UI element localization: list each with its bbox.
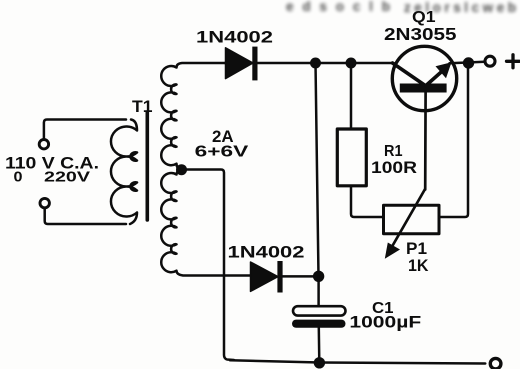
- wire: P1 right to emitter rail: [439, 63, 468, 217]
- resistor R1 body: [337, 129, 366, 186]
- node: C1 top junction: [313, 271, 324, 282]
- capacitor C1 lead top: [317, 276, 320, 306]
- capacitor C1 top plate (outline): [293, 306, 346, 315]
- output terminal +: [485, 56, 495, 66]
- svg-text:1K: 1K: [408, 256, 429, 275]
- transistor Q1 base lead down to wiper: [424, 93, 427, 190]
- diode D1 1N4002 (top) wire from secondary: [225, 62, 252, 65]
- wire: emitter junction to + terminal: [450, 62, 485, 64]
- potentiometer P1 wiper arrow: [392, 190, 425, 248]
- primary terminal top (110V): [39, 140, 48, 149]
- svg-text:edsoclb: edsoclb: [286, 0, 390, 14]
- transistor Q1 circle: [392, 46, 456, 110]
- svg-text:220V: 220V: [44, 170, 90, 186]
- transformer T1 secondary winding: [161, 63, 250, 276]
- capacitor C1 bottom plate (solid): [292, 320, 346, 328]
- wire: left vertical rail to C1 junction: [316, 63, 319, 276]
- transistor Q1 emitter line with arrow: [426, 70, 444, 86]
- diode D1 1N4002 triangle: [226, 48, 254, 79]
- svg-text:6+6V: 6+6V: [195, 144, 249, 161]
- capacitor C1 lead bottom: [318, 328, 321, 363]
- svg-text:1N4002: 1N4002: [196, 28, 273, 47]
- transistor Q1 base bar: [400, 84, 447, 93]
- svg-text:T1: T1: [132, 98, 153, 116]
- svg-text:0: 0: [14, 170, 23, 186]
- plus sign: [507, 55, 520, 68]
- wire: D2 cathode to C1 junction: [283, 275, 316, 278]
- node: R1 junction on top wire: [346, 58, 357, 69]
- diode D1 cathode bar: [252, 47, 257, 81]
- transistor Q1 collector line: [393, 63, 425, 85]
- transformer T1 primary winding: [111, 120, 137, 225]
- svg-text:1N4002: 1N4002: [228, 243, 305, 262]
- primary terminal bottom (220V): [40, 198, 49, 207]
- svg-text:100R: 100R: [371, 158, 417, 177]
- wire: center tap to bottom rail: [182, 170, 235, 361]
- node: C1 bottom rail junction: [314, 357, 325, 368]
- svg-text:2N3055: 2N3055: [384, 24, 457, 44]
- wire: D1 cathode to transistor collector: [258, 62, 393, 65]
- node: center tap junction: [176, 164, 187, 175]
- wire: bottom terminal to primary winding: [45, 208, 126, 224]
- node: emitter output junction: [463, 57, 474, 68]
- wire: bottom rail: [230, 360, 485, 363]
- output terminal bottom: [490, 358, 501, 369]
- svg-text:1000µF: 1000µF: [349, 313, 421, 332]
- resistor R1 lead top: [350, 63, 353, 129]
- node: rail junction on top wire: [310, 58, 321, 69]
- ghost bleed-through text top: [286, 0, 516, 15]
- transformer core: [146, 112, 150, 220]
- potentiometer P1 body: [384, 205, 440, 233]
- diode D2 1N4002 (bottom) triangle: [251, 262, 279, 291]
- resistor R1 lead bottom to P1: [351, 186, 384, 217]
- diode D2 cathode bar: [277, 261, 282, 293]
- wire: top terminal to primary winding: [44, 120, 126, 140]
